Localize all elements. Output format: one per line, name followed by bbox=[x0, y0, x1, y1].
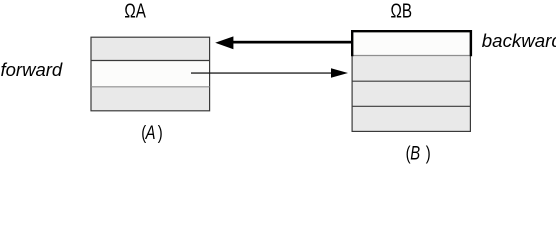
table A (state space A) bbox=[91, 37, 210, 111]
table B rows 2-4 fill (gray) bbox=[353, 56, 470, 131]
table A row 1 fill (gray) bbox=[92, 38, 210, 61]
table B row line 1 (under white row) bbox=[352, 55, 470, 57]
table B row line 3 bbox=[352, 105, 470, 107]
table B row line 2 bbox=[352, 80, 470, 82]
backward arrowhead bbox=[215, 36, 233, 49]
forward arrowhead bbox=[331, 68, 348, 78]
table A row 2 fill (white) bbox=[92, 61, 210, 87]
wire: forward arrow shaft bbox=[191, 72, 333, 73]
svg-text:backward: backward bbox=[482, 30, 556, 51]
svg-text:ΩB: ΩB bbox=[391, 0, 412, 22]
forward arrow (thin, left to right) bbox=[191, 68, 348, 78]
label (A) below table A bbox=[141, 122, 162, 143]
table B top row bold border (top, left, right) bbox=[352, 31, 471, 56]
svg-text:ΩA: ΩA bbox=[124, 0, 146, 22]
svg-text:A: A bbox=[145, 122, 156, 143]
wire: backward arrow shaft bbox=[231, 41, 352, 44]
table B (state space B) bbox=[352, 31, 471, 131]
table A row line 1 bbox=[91, 60, 210, 62]
svg-text:B: B bbox=[410, 143, 420, 164]
backward arrow (thick, right to left) bbox=[215, 36, 352, 49]
label (B) below table B bbox=[406, 143, 431, 164]
table A row line 2 bbox=[91, 86, 210, 88]
table B row 1 fill (white) bbox=[353, 32, 470, 56]
svg-text:forward: forward bbox=[1, 59, 63, 80]
table A row 3 fill (gray) bbox=[92, 87, 210, 111]
svg-text:): ) bbox=[426, 143, 431, 164]
table A outer border bbox=[91, 37, 210, 111]
svg-text:): ) bbox=[158, 122, 163, 143]
table B outer border bbox=[352, 31, 470, 131]
